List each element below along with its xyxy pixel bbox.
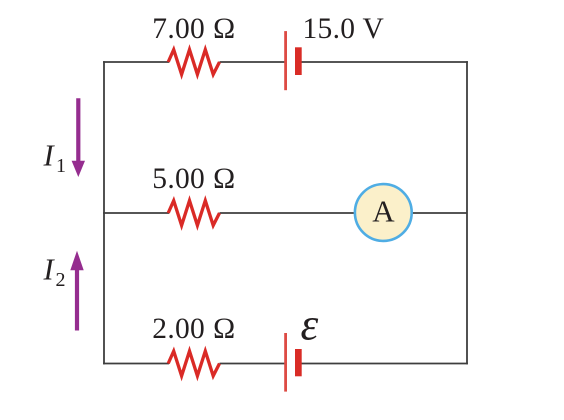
- svg-text:15.0 V: 15.0 V: [303, 13, 385, 45]
- svg-text:1: 1: [56, 155, 66, 177]
- battery V1 long plate: [284, 31, 287, 90]
- resistor R2 5.00 ohm: [168, 201, 219, 226]
- current arrow I2 (up): [70, 251, 83, 331]
- resistor R1 7.00 ohm: [168, 50, 219, 75]
- resistor R3 2.00 ohm: [168, 351, 219, 376]
- current arrow I1 (down): [72, 98, 85, 177]
- wire middle right segment: [220, 212, 468, 214]
- battery EMF short plate: [295, 349, 302, 376]
- svg-text:A: A: [372, 194, 395, 229]
- battery V1 short plate: [295, 47, 302, 75]
- wire left vertical: [103, 61, 105, 364]
- wire top middle segment: [220, 61, 286, 63]
- svg-text:2: 2: [56, 269, 66, 291]
- svg-text:I: I: [43, 139, 56, 173]
- wire bottom right segment: [301, 363, 468, 365]
- svg-text:ε: ε: [301, 300, 319, 350]
- wire top left segment: [103, 61, 169, 63]
- svg-text:7.00 Ω: 7.00 Ω: [152, 13, 235, 45]
- wire middle left segment: [103, 212, 169, 214]
- svg-text:I: I: [43, 253, 56, 287]
- ammeter A: [355, 184, 412, 241]
- battery EMF long plate: [284, 333, 287, 392]
- wire right vertical: [466, 61, 468, 364]
- wire bottom middle segment: [220, 363, 286, 365]
- svg-text:2.00 Ω: 2.00 Ω: [152, 313, 235, 345]
- wire top right segment: [301, 61, 468, 63]
- svg-text:5.00 Ω: 5.00 Ω: [152, 163, 235, 195]
- wire bottom left segment: [103, 363, 169, 365]
